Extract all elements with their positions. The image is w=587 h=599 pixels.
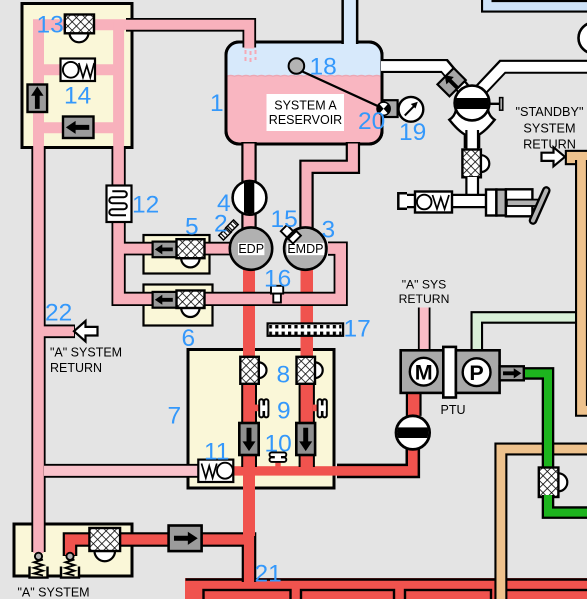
- bottom red manifold bar 21: [185, 578, 587, 599]
- svg-text:18: 18: [310, 54, 337, 81]
- EMDP pressure line (red, down from EMDP through box 7): [301, 264, 314, 472]
- svg-text:RETURN: RETURN: [399, 292, 450, 306]
- check valve on standby supply (rotated): [437, 68, 465, 96]
- svg-text:4: 4: [217, 190, 231, 217]
- wire: reservoir to valve 4 to EDP (pink): [244, 144, 255, 231]
- wire: reservoir Z-feed to EMDP (outline): [307, 142, 353, 230]
- PTU motor box: [401, 350, 444, 393]
- wire: right riser + heat exchanger + band to EMDP (pink): [119, 146, 341, 299]
- wire: stub to A system return arrow (pink): [39, 326, 75, 336]
- svg-text:1: 1: [210, 90, 224, 117]
- wire: A SYS RETURN into PTU motor (pink): [420, 308, 429, 351]
- svg-text:13: 13: [37, 12, 64, 39]
- wire: reservoir Z-feed to EMDP (pink): [307, 144, 353, 231]
- PTU branch red (outlined elbow to shutoff valve): [337, 447, 413, 471]
- check valve (down) EDP side: [239, 423, 258, 455]
- ground service check valve (right): [169, 526, 202, 552]
- PTU outlet check valve: [500, 366, 524, 380]
- filter 8 (EDP side): [259, 362, 267, 378]
- svg-text:"STANDBY": "STANDBY": [516, 105, 584, 119]
- wire: return stub into WO valve 11 (pink): [44, 466, 201, 476]
- reservoir inlet pipe (blue, from top edge): [341, 0, 358, 44]
- pressure switch 9 (EMDP side): [313, 399, 327, 417]
- STANDBY return block arrow: [542, 147, 566, 166]
- wire: tan line lower right: [501, 449, 587, 599]
- svg-text:10: 10: [265, 431, 292, 458]
- ground service red line (outlined): [70, 540, 249, 583]
- wire: reservoir to standby valve (outline): [381, 66, 469, 96]
- filter 6: [181, 308, 199, 317]
- svg-text:M: M: [415, 360, 433, 384]
- wire: green line below filter to right edge: [548, 495, 587, 513]
- svg-text:P: P: [469, 361, 483, 385]
- PTU coupling: [443, 347, 456, 398]
- electric motor connection 15: [288, 231, 301, 244]
- standby filter: [481, 155, 489, 172]
- svg-text:"A" SYSTEM: "A" SYSTEM: [18, 586, 90, 599]
- wire: bottom horizontal in module: [33, 122, 121, 133]
- svg-text:8: 8: [277, 362, 291, 389]
- wire: left return riser (pink): [33, 146, 44, 553]
- svg-text:RETURN: RETURN: [50, 361, 102, 375]
- svg-text:17: 17: [344, 316, 371, 343]
- wire: standby filter to hand pump line (white): [465, 177, 479, 202]
- standby system white piping: [381, 66, 587, 96]
- node labels (blue numbers): [37, 12, 427, 588]
- quantity transmitter 20: [377, 102, 390, 116]
- filter 8 (EMDP side): [315, 362, 323, 378]
- A system return block arrow 22: [74, 321, 98, 341]
- check valve (down) EMDP side: [296, 423, 315, 455]
- red stub PTU motor to valve: [406, 393, 422, 416]
- filter 5: [181, 258, 199, 267]
- quantity gauge 19: [399, 97, 424, 122]
- reservoir fluid spray below return inlet: [246, 50, 256, 63]
- ground service connector (left, return): [29, 553, 49, 579]
- wire: right vertical in module: [113, 22, 124, 148]
- wire: pale green PTU supply (standby side): [477, 317, 578, 352]
- svg-text:RESERVOIR: RESERVOIR: [269, 113, 342, 127]
- EDP supply shutoff valve 4: [233, 180, 267, 216]
- wire: left vertical in module: [33, 22, 44, 148]
- svg-text:"A" SYSTEM: "A" SYSTEM: [50, 346, 122, 360]
- filter module box 13/14 (top-left): [22, 4, 132, 148]
- standby relief valve (OW): [415, 192, 452, 213]
- wire: return stub into WO valve 11 (outline): [39, 464, 203, 478]
- check valve in module 6: [153, 292, 177, 308]
- ground service connector (right, pressure): [60, 553, 80, 579]
- standby shutoff valve (ball): [452, 86, 503, 121]
- right edge component circle: [579, 23, 587, 54]
- wire: top horizontal in module 13/14: [33, 19, 128, 30]
- svg-text:19: 19: [399, 119, 426, 146]
- float gauge linkage 18: [298, 70, 383, 109]
- ground service box (bottom-left): [14, 524, 132, 576]
- wire: branch to filter 5 and EDP (outline): [117, 242, 232, 256]
- filter 13: [70, 33, 89, 42]
- green line filter: [558, 473, 567, 491]
- check valve (left) in module 13/14: [63, 117, 94, 139]
- heat exchanger 17 (wing line): [268, 323, 344, 335]
- wire: stub to A system return arrow (outline): [39, 324, 76, 338]
- relief valve 14 (OW): [61, 59, 96, 82]
- case drain module 2: [226, 220, 238, 232]
- wire: A SYS RETURN into PTU motor (outline): [418, 308, 431, 351]
- wire: module return to reservoir top (outline): [126, 25, 249, 48]
- pressure switch 9 (EDP side): [255, 399, 269, 417]
- reservoir air space (blue) with fluid wave: [227, 44, 381, 77]
- wire: standby valve to right edge (outline): [476, 67, 587, 96]
- relief valve 11 (WO): [198, 460, 233, 482]
- svg-text:20: 20: [358, 108, 385, 135]
- svg-text:3: 3: [322, 217, 336, 244]
- sampling valve 16: [271, 286, 283, 294]
- svg-text:PTU: PTU: [441, 403, 466, 417]
- svg-text:21: 21: [255, 561, 282, 588]
- wire: valve to standby filter (white): [465, 130, 479, 151]
- wire: left return riser (outline): [31, 146, 45, 552]
- outlined pink supply/return network: [39, 25, 425, 552]
- wire: reservoir to valve 4 to EDP (outline): [241, 142, 256, 230]
- svg-text:15: 15: [271, 206, 298, 233]
- wire: middle horizontal through valve 14: [33, 64, 121, 75]
- plain pink pipes inside top-left module: [33, 22, 128, 148]
- SYSTEM A RESERVOIR label box: [267, 94, 345, 131]
- svg-text:SYSTEM A: SYSTEM A: [274, 99, 337, 113]
- check valve (up) in module 13/14: [28, 85, 48, 113]
- svg-text:"A" SYS: "A" SYS: [402, 278, 447, 292]
- wire: tan standby pressure line (right edge, upper): [565, 150, 587, 165]
- svg-text:22: 22: [45, 300, 72, 327]
- check valve in module 5: [153, 242, 177, 258]
- motor M: [410, 358, 438, 386]
- wire: right riser + heat exchanger + band to EMDP (outline): [119, 146, 341, 299]
- wire: standby hand pump line (white): [402, 194, 488, 208]
- EDP pressure line (red, down from EDP through box 7 to manifold): [243, 264, 255, 536]
- wire: green PTU output line: [511, 373, 548, 466]
- red pressure manifold (horizontal in box 7): [233, 466, 413, 475]
- svg-text:EDP: EDP: [238, 242, 264, 256]
- top right blue pipe elbow: [487, 0, 587, 6]
- electric motor driven pump EMDP: [284, 227, 326, 269]
- svg-text:12: 12: [132, 192, 159, 219]
- reservoir 1 body: [226, 42, 382, 144]
- filter module box 6: [144, 285, 213, 326]
- svg-text:7: 7: [168, 403, 182, 430]
- bleed valve 10: [270, 452, 287, 466]
- engine driven pump EDP: [230, 227, 272, 269]
- svg-text:9: 9: [277, 398, 291, 425]
- svg-text:5: 5: [185, 214, 199, 241]
- svg-text:16: 16: [264, 266, 291, 293]
- PTU shutoff valve: [395, 416, 431, 450]
- ground service filter: [95, 551, 116, 561]
- transmitter housing for gauge 19: [384, 100, 398, 117]
- filter module box 5: [144, 235, 210, 274]
- capped end fitting: [398, 193, 407, 208]
- svg-text:SYSTEM: SYSTEM: [523, 121, 575, 135]
- float 18: [289, 58, 305, 74]
- PTU pump box: [456, 350, 500, 393]
- outline segments on pressure lines in box 7: [241, 383, 315, 467]
- wire: branch to filter 5 and EDP (pink): [117, 244, 232, 254]
- svg-text:6: 6: [182, 325, 196, 352]
- wire: module return to reservoir top (pink): [126, 25, 249, 49]
- pressure module box 7: [188, 350, 334, 489]
- svg-text:14: 14: [64, 83, 91, 110]
- hand pump: [486, 189, 546, 220]
- heat exchanger coil 12: [107, 186, 132, 223]
- pump P: [463, 358, 491, 386]
- standby shutoff valve skirt: [449, 110, 494, 147]
- svg-text:RETURN: RETURN: [523, 138, 576, 152]
- svg-text:11: 11: [204, 439, 229, 466]
